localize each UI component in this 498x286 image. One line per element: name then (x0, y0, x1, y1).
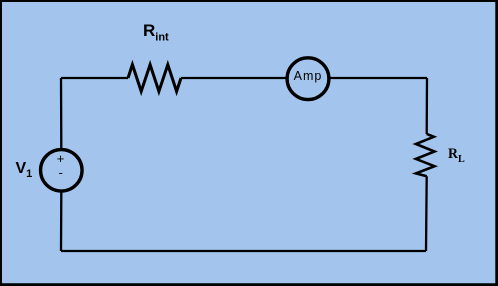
resistor R_int (128, 65, 181, 92)
wire R_int to ammeter (181, 77, 287, 79)
wire left vertical bottom (corner to V1) (60, 193, 63, 252)
voltage source minus sign (59, 165, 63, 180)
label V1 (16, 160, 33, 180)
label Amp (287, 69, 329, 83)
label RL (448, 146, 465, 165)
label R_int (143, 21, 169, 43)
wire left vertical top (V1 to corner) (60, 78, 63, 148)
ammeter Amp circle (287, 58, 329, 100)
wire right vertical top (corner to R_L) (426, 78, 429, 134)
voltage source plus sign (57, 151, 65, 166)
wire top-left horizontal (corner to R_int) (61, 77, 128, 79)
wire ammeter to top-right corner (330, 77, 428, 79)
wire right vertical bottom (R_L to corner) (425, 176, 428, 251)
resistor R_L (416, 134, 435, 176)
wire bottom horizontal (61, 250, 426, 252)
voltage source V1 circle (41, 150, 83, 192)
